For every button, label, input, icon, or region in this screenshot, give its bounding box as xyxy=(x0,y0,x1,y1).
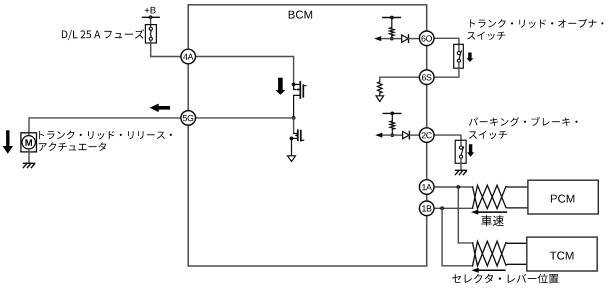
parking brake switch SW2 xyxy=(455,140,466,163)
+B text xyxy=(145,7,156,13)
pin 1B xyxy=(419,201,434,216)
power bar above R3 xyxy=(383,112,401,114)
ground (triangle) at R2 xyxy=(376,96,384,102)
BCM module box xyxy=(188,5,427,266)
current flow arrow (left) above actuator wire xyxy=(150,104,171,113)
chassis ground at actuator xyxy=(23,163,34,167)
wire + flow arrow (left) on 6O line xyxy=(381,38,392,40)
current flow arrow (down) at Q1 xyxy=(275,78,285,95)
wire actuator to ground xyxy=(28,149,30,164)
trunk lid release actuator (motor M1) xyxy=(21,133,37,152)
pin 1A xyxy=(419,180,434,195)
resistor R2 xyxy=(378,82,383,94)
junction node on 1B wire xyxy=(440,206,444,210)
chassis ground at SW2 xyxy=(455,170,466,174)
label: trunk lid opener switch line2 xyxy=(467,32,505,41)
TCM box xyxy=(527,237,597,271)
wire 1A to twisted pair xyxy=(434,186,473,188)
vehicle speed signal arrow xyxy=(478,211,507,213)
wire 1A-junction down to TCM pair xyxy=(458,187,472,243)
wire 5G to actuator xyxy=(29,118,181,136)
trunk lid opener switch SW1 xyxy=(454,44,464,68)
label: parking brake switch line1 xyxy=(469,117,578,126)
label: vehicle speed xyxy=(481,215,504,226)
twisted pair to PCM xyxy=(473,185,528,208)
junction node Q1/Q2/5G xyxy=(292,116,296,120)
label: selector lever position xyxy=(452,274,558,284)
power bar above R1 xyxy=(383,17,401,19)
wire junction to Q2 xyxy=(293,118,295,133)
wire fuse to pin 4A xyxy=(151,40,181,56)
wire 6O to switch SW1 xyxy=(434,38,459,51)
PCM box xyxy=(528,180,598,214)
resistor R1 xyxy=(391,18,393,28)
label: trunk lid release line1 xyxy=(39,131,172,140)
wire +B to fuse xyxy=(150,17,152,27)
junction node on 2C line xyxy=(390,133,394,137)
label: trunk lid release line2 xyxy=(39,142,107,151)
transistor Q2 (low-side FET) xyxy=(290,130,304,156)
label: D/L 25 A fuse xyxy=(62,29,144,40)
pin 6S xyxy=(419,70,434,85)
junction node on 1A wire xyxy=(456,185,460,189)
pin 6O xyxy=(419,31,434,46)
wire 6S to R2 xyxy=(380,77,420,82)
ground (triangle) at Q2 xyxy=(288,156,296,162)
PCM label text xyxy=(551,195,574,203)
+B power bar xyxy=(143,16,160,18)
wire 2C to switch SW2 xyxy=(434,135,461,146)
wire 1B to twisted pair xyxy=(434,207,473,209)
pin 5G xyxy=(181,111,196,126)
switch actuation arrow (down) xyxy=(466,53,473,62)
wire SW1 to 6S xyxy=(434,62,459,77)
BCM label text xyxy=(289,11,312,19)
actuator direction arrow (down, far left) xyxy=(3,130,14,154)
wire 4A to transistor Q1 xyxy=(196,57,294,85)
pin 4A xyxy=(181,49,196,64)
wire 5G to junction xyxy=(196,117,294,119)
twisted pair to TCM xyxy=(473,241,527,266)
transistor Q1 (high-side FET) xyxy=(292,82,306,118)
switch actuation arrow (down) xyxy=(467,144,474,157)
wire SW2 to ground xyxy=(460,158,462,170)
diode D1 xyxy=(392,38,402,40)
junction node on 6O line xyxy=(390,37,394,41)
motor M letter xyxy=(25,139,32,146)
fuse F1 (D/L 25A) xyxy=(145,25,156,43)
resistor R3 xyxy=(391,113,393,121)
wire 1B-junction down to TCM pair xyxy=(442,208,473,265)
TCM label text xyxy=(550,252,574,260)
label: parking brake switch line2 xyxy=(469,131,507,140)
wire + flow arrow (left) on 2C line xyxy=(382,134,392,136)
pin 2C xyxy=(419,128,434,143)
selector lever position signal arrow xyxy=(478,269,505,271)
diode D2 xyxy=(392,134,402,136)
label: trunk lid opener switch line1 xyxy=(470,19,603,28)
+B junction dot xyxy=(149,15,153,19)
